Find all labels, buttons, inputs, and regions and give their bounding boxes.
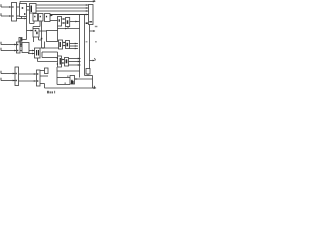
node O2 arrowhead (93, 60, 95, 62)
block FF1 (33, 14, 38, 22)
block B7 (47, 31, 58, 42)
wire v42 (41, 52, 43, 58)
wire input c2 (1, 80, 15, 82)
wire h57 (42, 57, 58, 59)
block N2 (22, 43, 29, 53)
wire U2 top tick (19, 1, 21, 3)
node stub b arrowhead (63, 22, 65, 24)
block FF5 (66, 18, 70, 27)
node terminal in2 (0, 13, 2, 16)
node label wire18 (64, 83, 66, 84)
wire output O1 (90, 30, 96, 32)
wire FF4-FF5 stub b (62, 22, 66, 24)
node c2 arrowhead (13, 80, 15, 82)
wire FF1 drop (33, 21, 35, 24)
wire bus b2 (36, 7, 89, 9)
node bottom tick (94, 86, 95, 88)
wire N2 out1 (29, 50, 35, 52)
node N4 bars (60, 42, 61, 47)
wire input b2 (1, 50, 17, 52)
node bottom arrowhead (94, 87, 97, 89)
node h28 arrowhead (65, 28, 67, 30)
node B10 dot (71, 80, 72, 82)
wire under M1 b (38, 37, 40, 40)
wire N9 stub (87, 74, 89, 76)
node b3 arrowhead (86, 10, 89, 12)
node stub b arrowhead (64, 45, 66, 47)
wire v26 (26, 17, 28, 40)
node N4b out1 arrowhead (75, 43, 77, 45)
node FF4 dot (59, 19, 60, 21)
node b1 arrowhead (14, 44, 16, 46)
wire N6 out2 (69, 61, 81, 63)
node label 31 (86, 41, 88, 42)
node b arrowhead (34, 80, 36, 82)
wire T1 link (22, 39, 27, 41)
wire v57 long (56, 67, 58, 85)
node b1 arrowhead (86, 4, 89, 6)
node b2 arrowhead (86, 7, 89, 9)
block N5 (58, 56, 62, 67)
node stub a arrowhead (63, 18, 65, 20)
wire T1 down (20, 41, 22, 47)
block B10 (70, 76, 75, 85)
node B10 dark cap (71, 81, 74, 84)
wire B10 out (75, 78, 93, 80)
block REG right (89, 5, 94, 25)
node N4b out3 arrowhead (75, 48, 77, 50)
block U3 (30, 4, 37, 14)
wire bottom long (45, 87, 95, 89)
wire N3 bottom (37, 58, 39, 62)
wire h76 (40, 75, 48, 77)
node M1 mark (35, 30, 37, 32)
wire under M1 a (33, 37, 35, 42)
wire N8 out bottom (40, 83, 45, 85)
wire bus b4 (50, 14, 89, 16)
wire U1-U2 stubs (17, 6, 20, 8)
block N6 (65, 58, 69, 67)
wire input c1 (1, 73, 15, 75)
block FF2 (39, 14, 44, 22)
wire N7-N8 b (19, 80, 37, 82)
wire FF5 out (70, 21, 80, 23)
node N6 out1 arrowhead (78, 58, 80, 60)
wire N1-N2 stubs (20, 44, 22, 46)
wire N7-N8 a (19, 73, 37, 75)
node U2 marks (22, 7, 24, 9)
node N6 out3 arrowhead (78, 64, 80, 66)
node N4b marks (67, 43, 69, 47)
wire N4b out2 (70, 45, 79, 47)
block U2 (20, 4, 27, 17)
wire FF4 in (50, 20, 58, 22)
node N2 out2 arrowhead (32, 53, 34, 55)
node label wire17 (67, 76, 69, 77)
node N7 dots (16, 73, 17, 74)
wire output O2 (90, 60, 95, 62)
node b2 arrowhead (14, 50, 16, 52)
wire v79 down (79, 71, 81, 78)
node c1 arrowhead (13, 73, 15, 75)
wire h52 (42, 51, 58, 53)
node h18 arrowhead (24, 18, 26, 20)
wire N8 out top (40, 70, 45, 72)
block N4b (66, 41, 70, 49)
wire N4b out3 (70, 48, 79, 50)
wire v92 (92, 76, 94, 89)
wire input a1 (1, 6, 12, 8)
wire h18 (17, 18, 27, 20)
block N3 (35, 48, 41, 58)
wire N5-N6 stub a (62, 59, 65, 61)
node T1 fill (20, 38, 21, 41)
node terminal in5 (0, 71, 2, 74)
wire input a2 (1, 15, 12, 17)
node top-right arrow (93, 0, 96, 2)
block N8 (37, 70, 41, 86)
node B10 out arrowhead (76, 78, 78, 80)
node N1 dots (17, 44, 18, 45)
wire N2 out2 (28, 53, 35, 55)
node terminal in1 (0, 4, 2, 7)
node FF3 out arrowhead (50, 15, 53, 17)
wire vertical bus V1 (79, 15, 81, 71)
node U1 pin dots (12, 6, 13, 7)
wire N5-N6 stub b (62, 62, 65, 64)
wire v29 (29, 13, 31, 24)
node O2 tick (95, 58, 96, 60)
wire bus b3 (36, 10, 89, 12)
block FF4 (58, 17, 62, 27)
node N6 mark (66, 59, 68, 63)
node stub a arrowhead (62, 59, 64, 61)
wire v44 (44, 84, 46, 89)
wire h84 (57, 84, 70, 86)
wire h75 (85, 75, 93, 77)
block U1 (12, 3, 17, 22)
node N3 out arrowhead (43, 47, 45, 49)
block M1 (33, 29, 39, 38)
node N8 dots (37, 73, 38, 74)
wire bus b1 (36, 4, 89, 6)
wire into M1 top (32, 27, 34, 29)
node U3 mark (31, 6, 33, 13)
wire h28 long (58, 28, 80, 30)
node N2 out1 arrowhead (32, 50, 34, 52)
wire N6 out3 (69, 64, 81, 66)
node N6 out2 arrowhead (78, 61, 80, 63)
node figure caption (47, 91, 55, 94)
node O1 arrowhead (93, 30, 95, 32)
wire U2-U3 stubs (27, 6, 30, 8)
wire N6 out1 (69, 58, 81, 60)
block T1 tiny (19, 38, 22, 42)
node M1 mark2 (36, 32, 37, 35)
node stub a arrowhead (64, 42, 66, 44)
block N9 (86, 69, 90, 75)
wire FF5 bottom tick (67, 27, 69, 29)
node FF5 marks (67, 20, 69, 24)
wire top output (20, 0, 94, 2)
wire h77 box10 in (57, 77, 70, 79)
block N7 (15, 67, 19, 86)
node terminal in3 (0, 42, 2, 45)
node b4 arrowhead (86, 14, 89, 16)
wire N3 out (40, 47, 59, 49)
node a1 arrowhead (9, 6, 11, 8)
node M1 in arrowhead (31, 30, 33, 32)
node terminal in4 (0, 48, 2, 51)
node top-right tick (94, 0, 95, 1)
node N4b out2 arrowhead (75, 45, 77, 47)
wire h71 (57, 70, 80, 72)
block N4 (59, 40, 63, 49)
wire h23 (30, 23, 35, 25)
node FF3 dot (46, 16, 47, 17)
wire FF4-FF5 stub a (62, 18, 66, 20)
node label 26 (95, 26, 98, 27)
wire N4-N4b stub a (63, 42, 66, 44)
node stub b arrowhead (62, 62, 64, 64)
block FF3 (45, 14, 51, 22)
node FF1 dot (34, 16, 35, 17)
wire vertical V4 (89, 25, 91, 69)
node a2 arrowhead (9, 15, 11, 17)
block N1 (17, 42, 21, 53)
wire B7-FF4 (57, 26, 59, 31)
wire input b1 (1, 44, 17, 46)
wire vertical v41 (41, 22, 43, 49)
node v41 dot (41, 38, 43, 40)
wire N4-N4b stub b (63, 45, 66, 47)
node a arrowhead (34, 73, 36, 75)
wire v57 into N5 (57, 52, 59, 56)
wire B7 bottom drop (44, 42, 46, 49)
wire vertical bus V2 (84, 15, 86, 76)
node REG marks (89, 21, 92, 22)
block NB (45, 68, 49, 74)
node N3 bars (36, 50, 37, 56)
node FF2 dot (40, 16, 41, 17)
wire M1 out (39, 30, 47, 32)
node FF5 out arrowhead (75, 21, 77, 23)
node N5 bar (60, 58, 61, 65)
wire under U2 (21, 17, 23, 19)
node terminal in6 (0, 78, 2, 81)
wire FF2 drop (39, 21, 41, 27)
node N5 input dots (57, 58, 58, 59)
wire h26b (33, 26, 40, 28)
wire into M1 (27, 30, 34, 32)
wire N4b out1 (70, 43, 79, 45)
